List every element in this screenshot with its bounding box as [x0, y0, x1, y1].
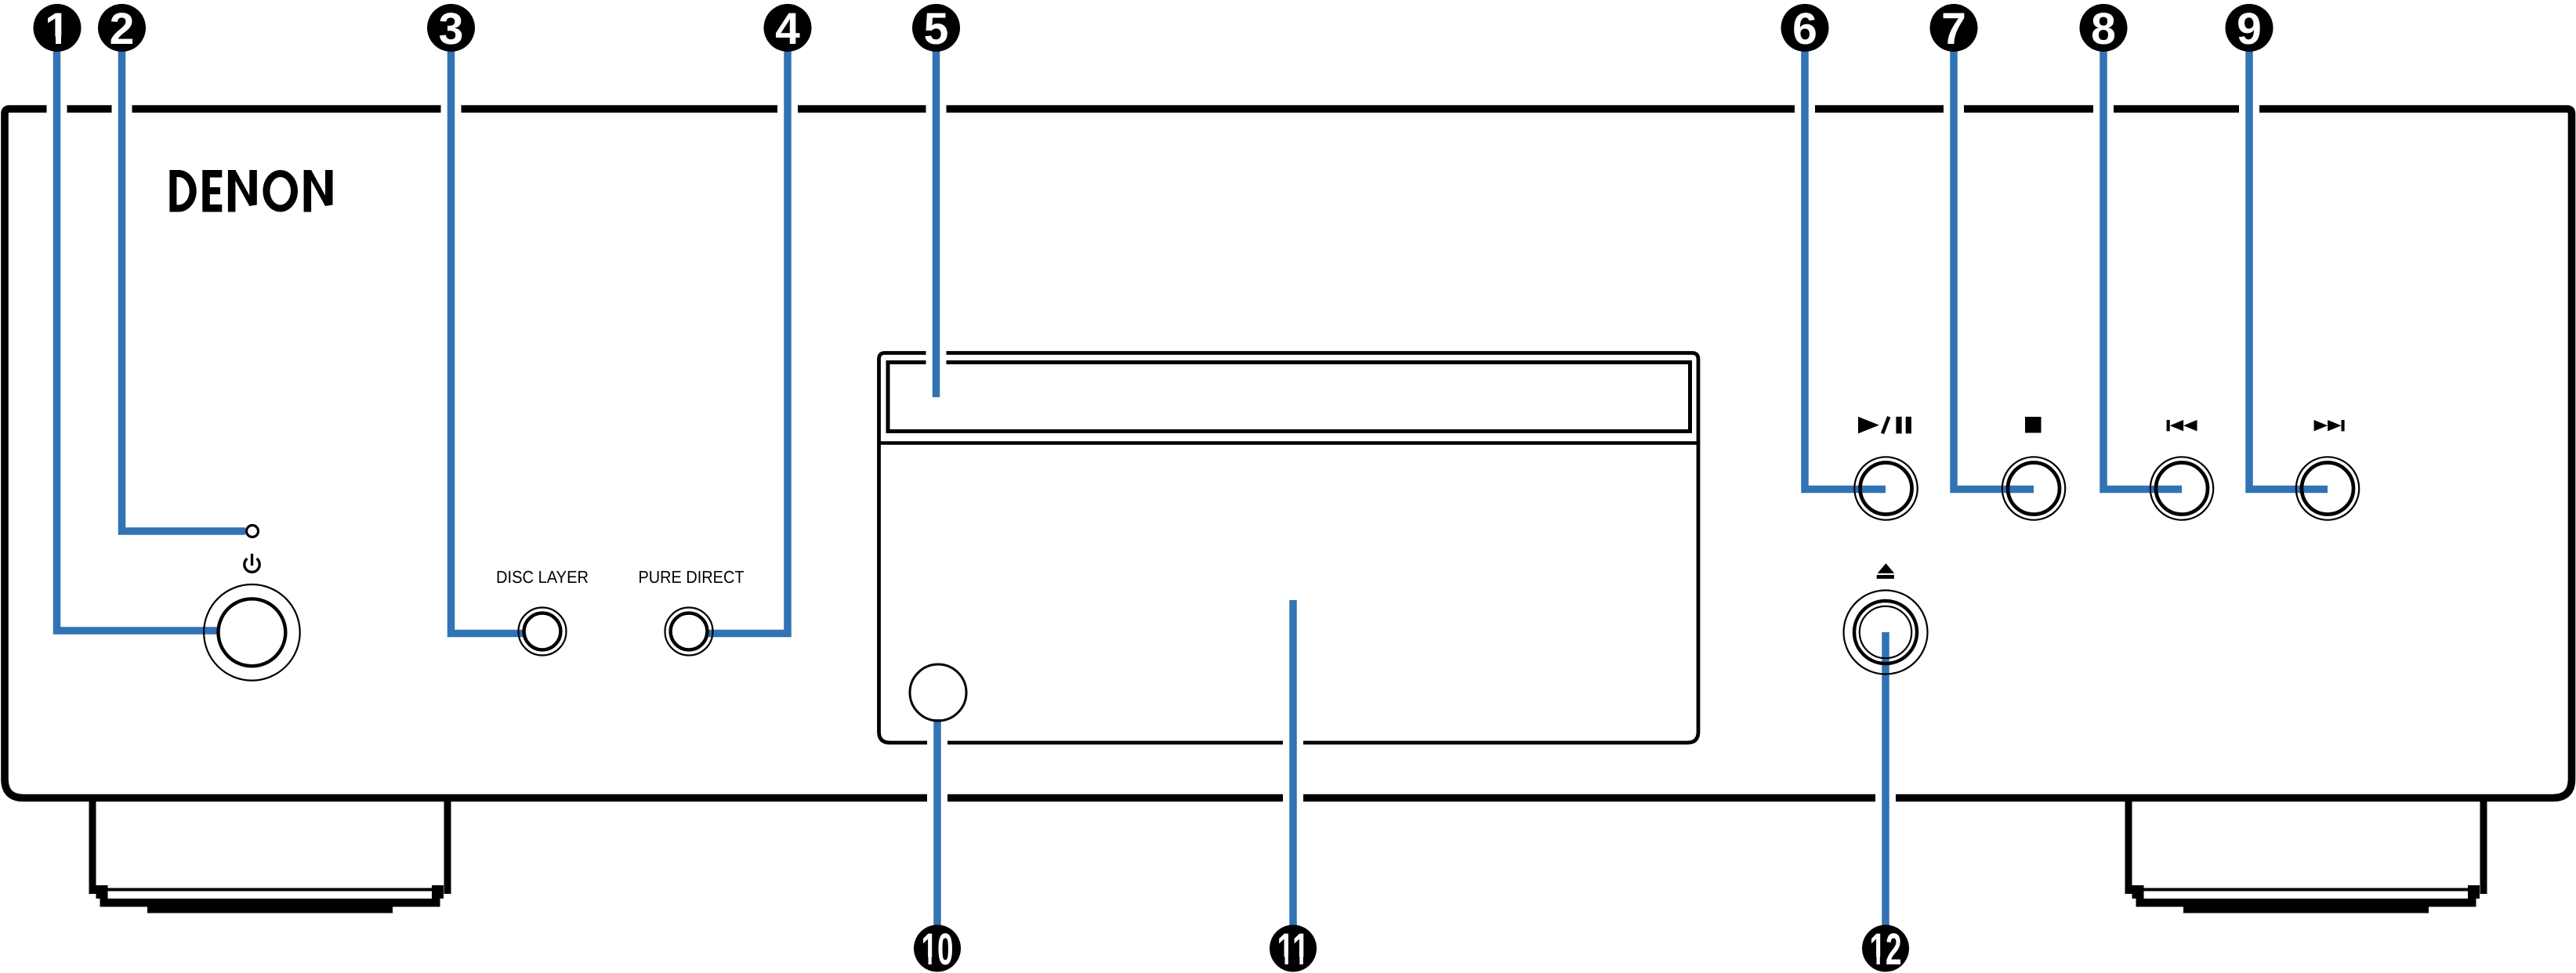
prev icon: [2167, 420, 2197, 431]
play/pause icon: [1858, 417, 1911, 434]
line 10 from remote sensor: [933, 719, 941, 926]
callout circle 8: [2080, 4, 2128, 52]
front panel outline: [5, 109, 2572, 798]
svg-text:6: 6: [1792, 4, 1817, 54]
svg-text:8: 8: [2091, 4, 2116, 54]
svg-text:1: 1: [45, 4, 70, 54]
line 3 to DISC LAYER button: [451, 31, 525, 634]
power button: [204, 584, 300, 681]
stop button: [2002, 457, 2065, 519]
callout circle 2: [98, 4, 146, 52]
white gaps on panel lines where leaders cross: [47, 103, 2260, 803]
callout circle 3: [427, 4, 475, 52]
callout circle 9: [2226, 4, 2273, 52]
svg-text:2: 2: [110, 4, 135, 54]
line 2 to LED: [122, 31, 246, 531]
svg-text:PURE DIRECT: PURE DIRECT: [639, 567, 745, 587]
line 11 from display: [1289, 600, 1297, 926]
svg-text:3: 3: [439, 4, 464, 54]
callout circle 7: [1930, 4, 1978, 52]
svg-text:9: 9: [2237, 4, 2262, 54]
stop icon: [2025, 417, 2042, 433]
svg-text:5: 5: [924, 4, 949, 54]
N: [304, 170, 333, 212]
line 9 to next button: [2249, 31, 2328, 490]
line 7 to stop button: [1954, 31, 2034, 490]
line 6 to play button: [1805, 31, 1886, 490]
power LED: [247, 526, 259, 537]
power symbol: [245, 554, 259, 572]
left foot: [89, 798, 451, 913]
play button: [1854, 457, 1917, 519]
callout circle 10: [914, 925, 961, 972]
callout circle 6: [1781, 4, 1829, 52]
PURE DIRECT button: [665, 608, 713, 656]
callout circle 5: [912, 4, 960, 52]
D: [169, 170, 196, 212]
O: [263, 170, 298, 212]
prev button: [2150, 457, 2213, 519]
svg-text:DISC LAYER: DISC LAYER: [496, 567, 589, 587]
line 4 to PURE DIRECT button: [707, 31, 788, 634]
line 5 to disc tray: [933, 31, 940, 397]
eject icon: [1877, 563, 1895, 579]
svg-text:4: 4: [775, 4, 800, 54]
next icon: [2314, 420, 2345, 431]
masks to remove serif feet of "1" glyphs: [47, 37, 1886, 967]
line 8 to prev button: [2103, 31, 2182, 490]
next button: [2296, 457, 2359, 519]
eject button: [1844, 591, 1928, 675]
callout circle 12: [1862, 925, 1909, 972]
DENON logo: [169, 170, 332, 212]
svg-text:7: 7: [1941, 4, 1966, 54]
right foot: [2125, 798, 2487, 913]
callout circle 11: [1270, 925, 1317, 972]
line 1 to power button: [57, 31, 220, 631]
E: [202, 170, 222, 212]
DISC LAYER button: [519, 608, 567, 656]
N: [228, 170, 257, 212]
line 12 from eject button: [1882, 632, 1889, 926]
divider under tray: [878, 441, 1701, 445]
callout circle 1: [34, 4, 82, 52]
remote sensor: [910, 664, 966, 721]
display/tray block: [879, 353, 1699, 743]
disc tray slot: [888, 363, 1690, 432]
callout circle 4: [764, 4, 812, 52]
